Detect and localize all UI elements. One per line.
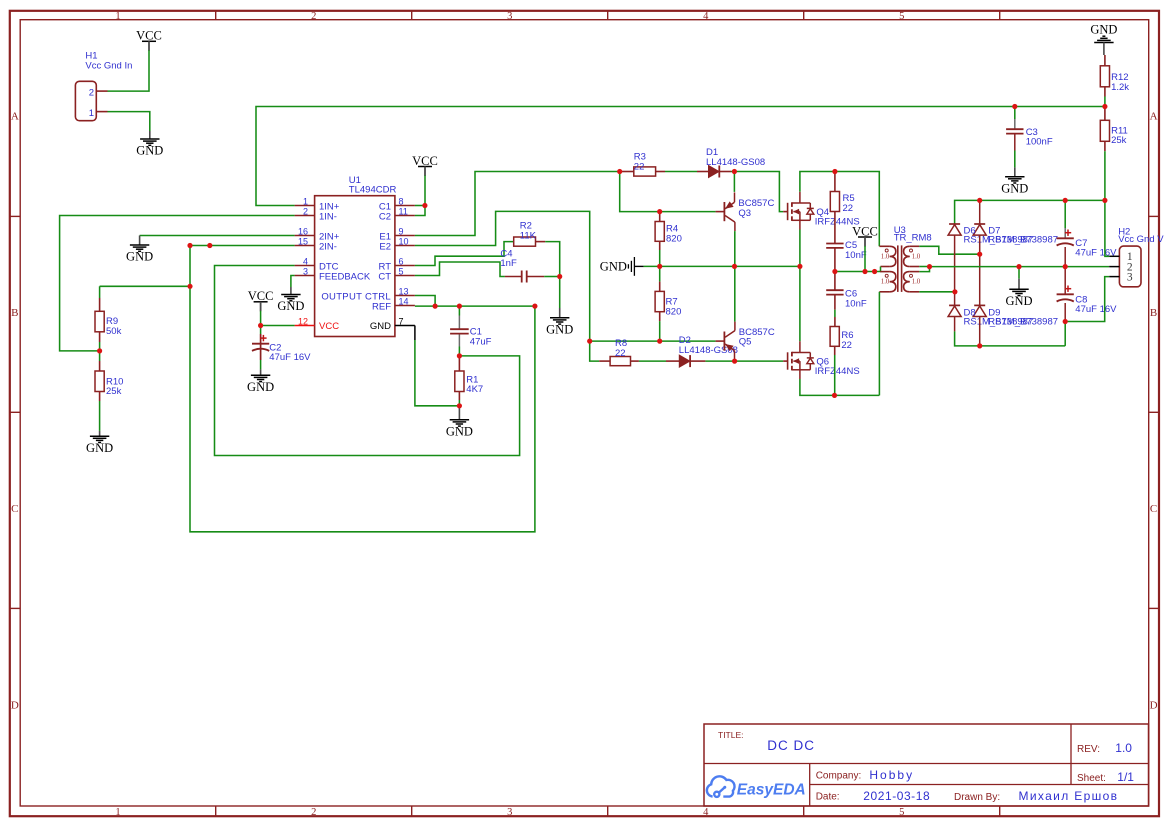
svg-text:Hobby: Hobby — [869, 768, 914, 782]
svg-text:1.0: 1.0 — [912, 279, 921, 286]
svg-text:IRFZ44NS: IRFZ44NS — [815, 366, 860, 377]
svg-text:GND: GND — [600, 260, 627, 274]
svg-text:GND: GND — [277, 299, 304, 313]
svg-text:1.0: 1.0 — [881, 254, 890, 261]
svg-text:47uF 16V: 47uF 16V — [1075, 304, 1117, 315]
svg-text:Михаил Ершов: Михаил Ершов — [1019, 789, 1119, 803]
svg-text:RS1M_B738987: RS1M_B738987 — [988, 234, 1058, 245]
svg-text:Drawn By:: Drawn By: — [954, 792, 1000, 803]
svg-text:12: 12 — [298, 316, 308, 326]
svg-text:25k: 25k — [1111, 135, 1127, 146]
svg-text:4: 4 — [703, 11, 709, 22]
svg-text:5: 5 — [899, 807, 904, 818]
svg-text:GND: GND — [1005, 294, 1032, 308]
svg-text:13: 13 — [399, 286, 409, 296]
svg-text:CT: CT — [378, 271, 391, 282]
svg-text:GND: GND — [446, 425, 473, 439]
svg-text:FEEDBACK: FEEDBACK — [319, 271, 371, 282]
svg-text:22: 22 — [615, 348, 626, 359]
svg-text:1.2k: 1.2k — [1111, 82, 1129, 93]
svg-text:7: 7 — [399, 316, 404, 326]
svg-text:Date:: Date: — [816, 792, 840, 803]
svg-text:9: 9 — [399, 226, 404, 236]
svg-text:47uF: 47uF — [470, 336, 492, 347]
svg-text:11K: 11K — [520, 230, 537, 241]
svg-text:10nF: 10nF — [845, 298, 867, 309]
svg-text:Q3: Q3 — [738, 208, 751, 219]
svg-text:GND: GND — [370, 321, 391, 332]
svg-text:TL494CDR: TL494CDR — [349, 184, 397, 195]
svg-text:2021-03-18: 2021-03-18 — [863, 789, 930, 803]
svg-text:DC DC: DC DC — [767, 738, 815, 753]
svg-text:EasyEDA: EasyEDA — [737, 782, 806, 799]
svg-text:Vcc Gnd V: Vcc Gnd V — [1118, 234, 1164, 245]
svg-text:10nF: 10nF — [845, 250, 867, 261]
svg-text:GND: GND — [126, 250, 153, 264]
svg-text:820: 820 — [666, 233, 682, 244]
svg-text:GND: GND — [1090, 22, 1117, 36]
svg-text:Sheet:: Sheet: — [1077, 773, 1106, 784]
svg-text:2: 2 — [89, 88, 94, 99]
svg-text:D: D — [1150, 700, 1158, 712]
svg-text:6: 6 — [399, 256, 404, 266]
svg-text:50k: 50k — [106, 326, 122, 337]
svg-text:1/1: 1/1 — [1117, 770, 1134, 784]
svg-text:1nF: 1nF — [500, 258, 517, 269]
svg-text:2IN-: 2IN- — [319, 241, 337, 252]
svg-text:Vcc Gnd In: Vcc Gnd In — [85, 61, 132, 72]
svg-text:A: A — [1150, 111, 1158, 123]
svg-text:15: 15 — [298, 236, 308, 246]
svg-text:A: A — [11, 111, 19, 123]
svg-text:3: 3 — [1127, 271, 1133, 283]
svg-text:3: 3 — [507, 807, 512, 818]
svg-text:GND: GND — [1001, 181, 1028, 195]
svg-text:C: C — [11, 503, 18, 515]
svg-text:1: 1 — [115, 807, 120, 818]
svg-text:25k: 25k — [106, 386, 122, 397]
svg-text:TR_RM8: TR_RM8 — [894, 232, 932, 243]
svg-text:2: 2 — [303, 206, 308, 216]
svg-text:1.0: 1.0 — [912, 254, 921, 261]
svg-text:RS1M_B738987: RS1M_B738987 — [988, 316, 1058, 327]
svg-text:4: 4 — [303, 256, 308, 266]
svg-text:Company:: Company: — [816, 771, 862, 782]
svg-text:4K7: 4K7 — [466, 384, 483, 395]
svg-text:1: 1 — [303, 196, 308, 206]
svg-text:GND: GND — [546, 323, 573, 337]
svg-text:5: 5 — [899, 11, 904, 22]
svg-text:5: 5 — [399, 266, 404, 276]
svg-text:10: 10 — [399, 236, 409, 246]
svg-text:GND: GND — [247, 380, 274, 394]
svg-text:1IN-: 1IN- — [319, 211, 337, 222]
svg-text:TITLE:: TITLE: — [718, 730, 744, 740]
svg-text:2: 2 — [311, 807, 316, 818]
svg-text:820: 820 — [666, 306, 682, 317]
svg-text:LL4148-GS08: LL4148-GS08 — [706, 157, 765, 168]
svg-text:22: 22 — [843, 203, 854, 214]
svg-text:1.0: 1.0 — [1115, 741, 1132, 755]
svg-text:100nF: 100nF — [1026, 137, 1053, 148]
svg-text:16: 16 — [298, 226, 308, 236]
svg-text:4: 4 — [703, 807, 709, 818]
svg-text:22: 22 — [841, 340, 852, 351]
svg-text:1: 1 — [89, 108, 94, 119]
svg-text:D: D — [11, 700, 19, 712]
svg-text:2: 2 — [311, 11, 316, 22]
svg-text:GND: GND — [86, 441, 113, 455]
svg-text:14: 14 — [399, 296, 409, 306]
svg-text:GND: GND — [136, 144, 163, 158]
svg-text:VCC: VCC — [319, 321, 339, 332]
svg-text:REF: REF — [372, 301, 391, 312]
svg-text:C2: C2 — [379, 211, 391, 222]
svg-text:Q5: Q5 — [739, 337, 752, 348]
svg-text:1: 1 — [115, 11, 120, 22]
svg-text:B: B — [1150, 307, 1157, 319]
svg-text:1.0: 1.0 — [881, 279, 890, 286]
svg-text:22: 22 — [634, 162, 645, 173]
svg-text:REV:: REV: — [1077, 744, 1100, 755]
svg-text:11: 11 — [399, 206, 408, 216]
svg-text:47uF 16V: 47uF 16V — [269, 352, 311, 363]
svg-text:3: 3 — [507, 11, 512, 22]
svg-text:B: B — [11, 307, 18, 319]
svg-text:8: 8 — [399, 196, 404, 206]
svg-text:E2: E2 — [379, 241, 391, 252]
svg-text:3: 3 — [303, 266, 308, 276]
svg-text:C: C — [1150, 503, 1157, 515]
